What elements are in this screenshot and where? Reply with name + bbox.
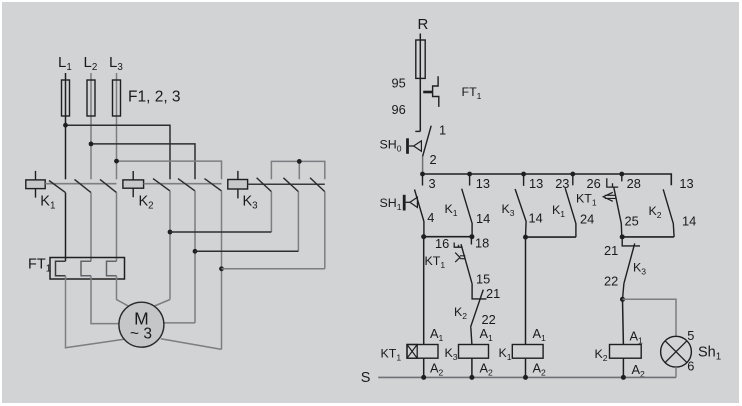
button SH1 actuator bbox=[404, 195, 417, 211]
wire K3 pole3 down bbox=[324, 192, 326, 269]
label 21 K3nc bbox=[604, 243, 618, 258]
contact KT1 timed tick bbox=[470, 237, 472, 245]
wire K3 pole2 down bbox=[297, 192, 299, 252]
wire jog L3 to K2 pole3 bbox=[117, 161, 222, 179]
fuse R bbox=[416, 40, 425, 78]
contact K2 no branch6 bbox=[663, 189, 674, 237]
node junction dot L3 bbox=[114, 159, 119, 164]
svg-text:14: 14 bbox=[682, 214, 696, 229]
wire K3 linkage bbox=[248, 183, 325, 185]
button SH1 branch tick bbox=[422, 174, 424, 186]
node dot bus 13b bbox=[521, 172, 526, 177]
label A1 K2 bbox=[630, 329, 644, 346]
node dot 18 bbox=[469, 234, 474, 239]
node L3 label bbox=[109, 54, 123, 73]
wire tie K2p2-K3p2 bbox=[195, 250, 298, 252]
fuse F2 bbox=[87, 80, 95, 116]
svg-text:4: 4 bbox=[427, 210, 434, 225]
wire K1 pole1 to FT1 bbox=[65, 193, 67, 262]
wire lamp branch top bbox=[623, 299, 677, 336]
label 2 bbox=[430, 152, 437, 167]
svg-text:13: 13 bbox=[476, 176, 490, 191]
wire branch6 link bbox=[622, 236, 674, 238]
wire lamp to S bbox=[675, 367, 677, 377]
label 3 bbox=[429, 176, 436, 191]
wire R to fuse bbox=[419, 34, 421, 132]
contactor K3 coil box bbox=[228, 171, 248, 199]
svg-text:21: 21 bbox=[604, 243, 618, 258]
svg-text:13: 13 bbox=[529, 176, 543, 191]
label 95 bbox=[392, 76, 406, 91]
label 22 branch2 bbox=[482, 312, 496, 327]
lamp Sh1 bbox=[661, 336, 692, 367]
contact K1 pole1 bbox=[49, 181, 66, 193]
thermal relay FT1 box bbox=[50, 258, 125, 280]
label 96 bbox=[392, 102, 406, 117]
node L1 label bbox=[58, 54, 72, 73]
FT1 element 1 bbox=[56, 261, 66, 276]
node dot bus 13a bbox=[467, 172, 472, 177]
svg-text:22: 22 bbox=[604, 274, 618, 289]
motor M bbox=[119, 302, 164, 347]
label A2 KT1 bbox=[430, 361, 444, 378]
button SH1 contact bbox=[415, 190, 424, 238]
coil K3 bbox=[459, 345, 489, 359]
wire L2 vertical bbox=[90, 73, 92, 179]
svg-text:14: 14 bbox=[476, 211, 490, 226]
label A2 K3 bbox=[480, 361, 494, 378]
label K2 bbox=[139, 194, 154, 212]
label 28 bbox=[627, 176, 641, 191]
svg-text:23: 23 bbox=[555, 176, 569, 191]
wire K2 coil branch bbox=[622, 299, 625, 344]
node dot K2 pole1 tie bbox=[168, 230, 173, 235]
node dot lamp tee bbox=[620, 297, 625, 302]
svg-text:6: 6 bbox=[687, 359, 694, 374]
svg-text:16: 16 bbox=[435, 236, 449, 251]
svg-text:22: 22 bbox=[482, 312, 496, 327]
contact K1 no branch4 bbox=[565, 174, 576, 237]
label K3 nc bbox=[633, 261, 646, 277]
label 13 branch2 bbox=[476, 176, 490, 191]
wire tie K2p3-K3p3 bbox=[222, 268, 325, 270]
node dot K2 pole2 tie bbox=[193, 249, 198, 254]
contact KT1 timed branch5 tick bbox=[621, 174, 623, 181]
label FT1 right bbox=[462, 85, 482, 101]
label K1 coil bbox=[499, 346, 512, 362]
label 6 bbox=[687, 359, 694, 374]
label 14 branch3 bbox=[529, 211, 543, 226]
label 1 bbox=[439, 123, 446, 138]
contact K1 pole2 bbox=[75, 179, 92, 192]
svg-text:5: 5 bbox=[687, 328, 694, 343]
svg-text:24: 24 bbox=[580, 212, 594, 227]
FT1 element 2 bbox=[81, 261, 91, 276]
label K3 bbox=[243, 194, 259, 212]
svg-text:14: 14 bbox=[529, 211, 543, 226]
svg-text:S: S bbox=[361, 370, 371, 386]
button SH0 contact bbox=[415, 126, 431, 174]
label 23 bbox=[555, 176, 569, 191]
node dot bus 23 bbox=[570, 172, 575, 177]
svg-text:2: 2 bbox=[430, 152, 437, 167]
svg-text:13: 13 bbox=[679, 176, 693, 191]
node R label bbox=[418, 16, 429, 33]
label K2 branch6 bbox=[649, 204, 662, 220]
label 14 branch2 bbox=[476, 211, 490, 226]
contact K2 pole2 bbox=[178, 179, 195, 191]
label A2 K1 bbox=[533, 361, 547, 378]
contact K2 nc branch2 bbox=[471, 284, 487, 345]
node dot K2 pole3 tie bbox=[219, 266, 224, 271]
svg-text:28: 28 bbox=[627, 176, 641, 191]
label 13 branch6 bbox=[679, 176, 693, 191]
wire K1 pole2 to FT1 bbox=[90, 193, 92, 262]
wire jog L2 to K2 pole2 bbox=[91, 144, 195, 179]
svg-text:~ 3: ~ 3 bbox=[130, 326, 152, 343]
thermal contact FT1 bracket bbox=[433, 76, 439, 107]
label K1 branch4 bbox=[552, 203, 565, 219]
svg-text:95: 95 bbox=[392, 76, 406, 91]
wire K1 pole3 to FT1 bbox=[116, 193, 118, 262]
svg-text:96: 96 bbox=[392, 102, 406, 117]
wire KT1 coil to S bbox=[423, 358, 425, 377]
node dot S KT1 bbox=[421, 375, 426, 380]
node dot star point bbox=[297, 159, 302, 164]
coil K1 bbox=[512, 345, 543, 359]
node dot 25-28 bbox=[620, 234, 625, 239]
fuse F1 bbox=[62, 80, 70, 116]
svg-text:21: 21 bbox=[486, 286, 500, 301]
wire holding link bbox=[424, 236, 472, 238]
label Sh1 bbox=[698, 345, 721, 363]
contact K3 no branch3 bbox=[515, 174, 526, 237]
label 26 bbox=[587, 176, 601, 191]
label 15 bbox=[476, 272, 490, 287]
node dot 16 bbox=[421, 234, 426, 239]
label A1 KT1 bbox=[430, 326, 444, 343]
contact K3 pole1 bbox=[257, 178, 272, 192]
contact K2 pole1 bbox=[153, 179, 170, 191]
label 22 K3nc bbox=[604, 274, 618, 289]
contact KT1 timed bracket bbox=[454, 243, 462, 248]
node dot bus 3 bbox=[420, 172, 425, 177]
label A1 K1 bbox=[533, 326, 547, 343]
svg-text:F1, 2, 3: F1, 2, 3 bbox=[128, 89, 181, 106]
label KT1 coil bbox=[381, 347, 402, 363]
wire FT1 out3 to motor bbox=[117, 276, 129, 307]
label F1,2,3 bbox=[128, 89, 181, 106]
svg-text:R: R bbox=[418, 16, 429, 33]
label K3 branch3 bbox=[502, 202, 515, 218]
symbol KT1 delay bbox=[455, 253, 465, 263]
contact K3 pole2 bbox=[283, 178, 298, 192]
label 5 bbox=[687, 328, 694, 343]
contact K3 nc bbox=[622, 237, 640, 299]
contactor K1 coil box bbox=[26, 171, 45, 198]
thermal contact FT1 bar bbox=[423, 91, 432, 94]
svg-text:1: 1 bbox=[439, 123, 446, 138]
wire K3 star bus bbox=[271, 161, 324, 179]
wire K2 pole2 down to motor bbox=[194, 191, 196, 323]
label A1 K3 bbox=[480, 326, 494, 343]
contact K2 pole3 bbox=[205, 179, 222, 191]
svg-text:15: 15 bbox=[476, 272, 490, 287]
label K3 coil bbox=[445, 346, 458, 362]
wire K1 coil to S bbox=[525, 358, 527, 377]
wire K1 coil branch bbox=[525, 237, 527, 344]
svg-text:18: 18 bbox=[475, 236, 489, 251]
wire K2 pole3 down to motor bbox=[221, 191, 223, 350]
wire tie K2p1-K3p1 bbox=[170, 231, 271, 233]
label 18 bbox=[475, 236, 489, 251]
label K2 branch2 bbox=[454, 305, 467, 321]
wire L1 vertical bbox=[65, 73, 67, 179]
wire motor bottom-right bbox=[161, 339, 222, 350]
contact K1 pole3 bbox=[100, 179, 117, 192]
node L2 label bbox=[84, 54, 98, 73]
node junction dot L2 bbox=[89, 142, 94, 147]
contact KT1 branch5 blade bbox=[614, 187, 622, 237]
node dot bus 26 bbox=[619, 172, 624, 177]
wire L3 vertical bbox=[116, 73, 118, 179]
node dot S K2 bbox=[621, 375, 626, 380]
label S bbox=[361, 370, 371, 386]
wire motor right bbox=[164, 322, 195, 324]
label 4 bbox=[427, 210, 434, 225]
wire K2 pole1 down to motor bbox=[169, 191, 171, 300]
coil KT1 bbox=[407, 345, 438, 359]
label 13 branch3 bbox=[529, 176, 543, 191]
node dot 24 bbox=[523, 235, 528, 240]
label K1 bbox=[40, 194, 55, 212]
label SH1 bbox=[380, 196, 402, 212]
label KT1 branch5 bbox=[576, 192, 597, 208]
label A2 K2 bbox=[632, 362, 646, 379]
contact K1 no branch2 bbox=[462, 174, 472, 236]
wire main bus bbox=[423, 174, 672, 185]
wire K1 linkage bbox=[45, 183, 116, 185]
contact KT1 timed blade bbox=[461, 244, 472, 284]
label FT1 bbox=[28, 257, 51, 275]
label K2 coil bbox=[595, 347, 608, 363]
wire K3 coil to S bbox=[471, 358, 473, 377]
FT1 element 3 bbox=[107, 261, 117, 276]
node dot S K1 bbox=[523, 375, 528, 380]
label K1 branch2 bbox=[445, 202, 458, 218]
label 25 bbox=[625, 214, 639, 229]
label SH0 bbox=[380, 138, 402, 154]
wire FT1 out1 to motor bbox=[66, 276, 125, 348]
wire K2 coil to S bbox=[622, 358, 624, 377]
wire jog L1 to K2 pole1 bbox=[66, 125, 171, 179]
contactor K2 coil box bbox=[123, 171, 144, 197]
symbol KT1 arrow bbox=[603, 192, 615, 201]
label 21 branch2 bbox=[486, 286, 500, 301]
wire K3 pole1 down bbox=[270, 192, 272, 232]
svg-text:3: 3 bbox=[429, 176, 436, 191]
wire K2 linkage bbox=[144, 183, 222, 185]
label 24 bbox=[580, 212, 594, 227]
button SH0 actuator bbox=[408, 138, 422, 154]
contact KT1 branch5 bracket bbox=[607, 178, 618, 187]
label KT1 mid bbox=[425, 254, 446, 270]
wire S bus bbox=[378, 376, 676, 378]
wire motor top-right bbox=[155, 300, 171, 307]
svg-text:26: 26 bbox=[587, 176, 601, 191]
label 14 branch6 bbox=[682, 214, 696, 229]
coil K2 bbox=[610, 345, 642, 359]
wire K3 coil in bbox=[471, 343, 473, 345]
node dot S K3 bbox=[469, 375, 474, 380]
node junction dot L1 bbox=[63, 123, 68, 128]
svg-text:25: 25 bbox=[625, 214, 639, 229]
wire branch4 link bbox=[526, 236, 576, 238]
label 16 bbox=[435, 236, 449, 251]
contact K3 pole3 bbox=[310, 178, 325, 192]
wire KT1 coil branch bbox=[423, 237, 425, 345]
wire FT1 out2 to motor bbox=[91, 276, 119, 324]
fuse F3 bbox=[113, 80, 121, 116]
